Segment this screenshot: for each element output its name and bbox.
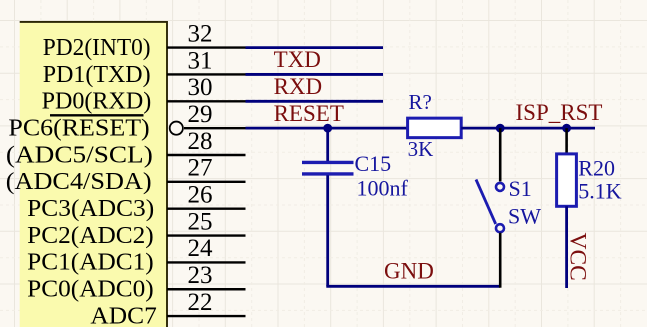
wire C15 top <box>326 128 329 161</box>
svg-text:23: 23 <box>188 262 213 289</box>
wire TXD <box>246 73 384 76</box>
svg-text:ADC7: ADC7 <box>90 302 156 327</box>
svg-text:(ADC5/SCL): (ADC5/SCL) <box>6 141 153 168</box>
svg-text:22: 22 <box>188 289 213 316</box>
svg-text:C15: C15 <box>355 151 392 176</box>
svg-text:PC2(ADC2): PC2(ADC2) <box>27 222 154 249</box>
svg-text:PD1(TXD): PD1(TXD) <box>43 61 151 88</box>
svg-text:PC6(RESET): PC6(RESET) <box>8 114 149 141</box>
svg-text:PD2(INT0): PD2(INT0) <box>43 34 151 61</box>
wire C15 bottom to GND run <box>326 175 329 286</box>
pin 22 <box>167 315 246 317</box>
svg-text:5.1K: 5.1K <box>578 178 622 203</box>
svg-text:PC1(ADC1): PC1(ADC1) <box>27 249 154 276</box>
svg-text:26: 26 <box>188 182 213 209</box>
svg-text:SW: SW <box>508 203 541 228</box>
overbar on RESET <box>50 114 144 116</box>
pin 32 <box>167 46 246 48</box>
svg-text:30: 30 <box>188 74 213 101</box>
pin 25 <box>167 234 246 236</box>
svg-text:24: 24 <box>188 235 214 262</box>
svg-text:VCC: VCC <box>565 233 591 281</box>
resistor R? <box>408 118 462 137</box>
svg-text:TXD: TXD <box>274 47 321 72</box>
svg-text:PC0(ADC0): PC0(ADC0) <box>27 276 154 303</box>
pin 23 <box>167 288 246 290</box>
pin 27 <box>167 181 246 183</box>
svg-text:28: 28 <box>188 128 213 155</box>
svg-text:RXD: RXD <box>274 74 323 99</box>
svg-text:ISP_RST: ISP_RST <box>516 100 603 125</box>
wire R20 top <box>565 128 568 154</box>
svg-text:S1: S1 <box>509 176 532 201</box>
svg-text:R?: R? <box>409 90 432 114</box>
switch S1 pin top <box>499 128 502 181</box>
svg-text:GND: GND <box>384 259 434 284</box>
svg-text:R20: R20 <box>578 155 615 180</box>
switch S1 body <box>476 180 504 233</box>
capacitor C15 <box>302 162 354 174</box>
svg-text:(ADC4/SDA): (ADC4/SDA) <box>6 168 152 195</box>
svg-text:100nf: 100nf <box>357 176 409 201</box>
svg-text:29: 29 <box>188 101 213 128</box>
wire RXD <box>246 100 384 103</box>
pin 26 <box>167 207 246 209</box>
junction node RESET/C15 <box>323 124 332 133</box>
wire RESET to resistor <box>246 127 409 130</box>
pin 29 (RESET, active low) <box>184 127 246 129</box>
svg-text:32: 32 <box>188 20 213 47</box>
svg-text:PC3(ADC3): PC3(ADC3) <box>27 195 154 222</box>
svg-text:PD0(RXD): PD0(RXD) <box>42 88 152 115</box>
switch S1 pin bottom <box>499 233 502 288</box>
wire pin32 <box>246 46 384 49</box>
pin 31 <box>167 73 246 75</box>
svg-text:RESET: RESET <box>274 101 344 126</box>
junction node R20 branch <box>562 124 571 133</box>
pin 30 <box>167 100 246 102</box>
svg-text:27: 27 <box>188 155 213 182</box>
wire R20 bottom to VCC <box>565 206 568 288</box>
inversion bubble pin 29 <box>170 122 183 135</box>
pin 28 <box>167 154 246 156</box>
svg-text:3K: 3K <box>408 137 434 161</box>
resistor R20 <box>557 154 577 206</box>
wire GND run <box>326 285 500 288</box>
wire resistor to ISP_RST <box>461 127 595 130</box>
svg-text:25: 25 <box>188 208 213 235</box>
IC body U1 (MCU, partial) <box>20 22 167 327</box>
svg-text:31: 31 <box>188 47 213 74</box>
junction node switch branch <box>496 124 505 133</box>
pin 24 <box>167 261 246 263</box>
